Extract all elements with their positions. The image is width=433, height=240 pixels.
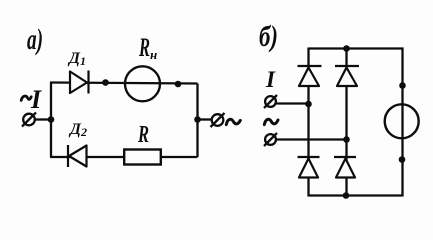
terminal left (a) [22, 113, 36, 127]
node junction before right corner (a) [175, 81, 182, 88]
svg-text:б): б) [259, 20, 278, 53]
svg-text:а): а) [27, 23, 43, 56]
terminal input 2 (b) [264, 133, 277, 146]
diode Д2 [68, 145, 87, 167]
load Rн (circle device) [125, 66, 160, 101]
wire right branch (circuit b) [401, 48, 403, 197]
wire right rail (circuit a) [196, 84, 198, 158]
svg-text:R: R [138, 33, 150, 62]
node meter top junction (b) [399, 82, 406, 89]
svg-text:I: I [30, 85, 42, 114]
wire left rail (circuit a) [50, 83, 52, 158]
node junction after Д1 [102, 79, 109, 86]
svg-text:н: н [150, 47, 157, 62]
wire left rail (circuit b) [307, 48, 309, 197]
wire input 2 (circuit b) [277, 138, 347, 140]
wire top bus (circuit b) [309, 47, 404, 49]
wire right terminal stub (circuit a) [198, 118, 212, 120]
node input 2 junction (b) [343, 136, 350, 143]
node left terminal junction (a) [48, 116, 55, 123]
wire bottom bus (circuit b) [309, 194, 403, 196]
diode Д1 [70, 71, 89, 94]
label ~ (b input) [264, 119, 278, 124]
node top bus junction (b) [343, 45, 350, 52]
label ~I (a input) [21, 96, 31, 100]
meter circle (b) [385, 104, 419, 138]
diode VD1 top-left (b) [298, 66, 322, 86]
diode VD3 bottom-left (b) [298, 157, 320, 178]
label ~ (right terminal a) [226, 119, 240, 124]
wire input 1 (circuit b) [277, 102, 309, 104]
terminal right (a) [211, 113, 225, 127]
wire middle rail (circuit b) [345, 48, 347, 197]
terminal input 1 (b) [264, 95, 277, 108]
node meter bottom junction (b) [399, 156, 406, 163]
node right terminal junction (a) [194, 116, 201, 123]
wire left terminal stub (circuit a) [35, 118, 51, 120]
svg-text:I: I [265, 67, 276, 92]
svg-text:R: R [137, 122, 149, 148]
wire top bus (circuit a) [50, 83, 198, 84]
diode VD4 bottom-middle (b) [334, 157, 356, 178]
wire bottom bus (circuit a) [50, 156, 198, 158]
resistor R [124, 150, 161, 165]
diode VD2 top-middle (b) [335, 66, 359, 86]
node input 1 junction (b) [305, 101, 312, 108]
node bottom bus junction (b) [343, 192, 350, 199]
